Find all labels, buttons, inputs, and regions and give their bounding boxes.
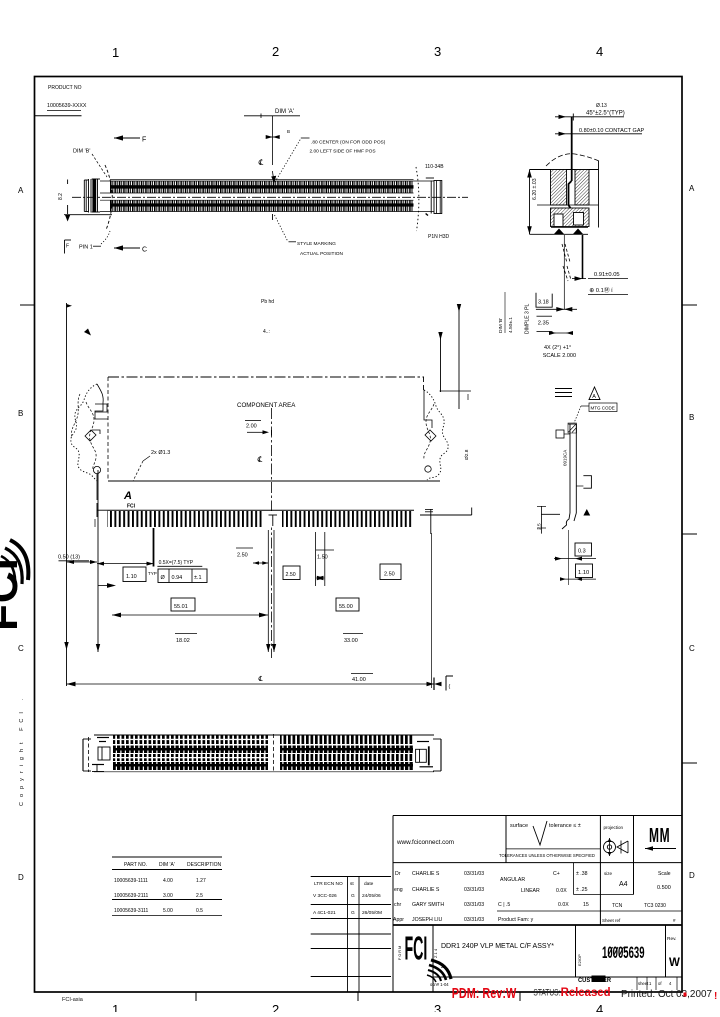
svg-text:A: A <box>123 490 132 502</box>
svg-text:55.00: 55.00 <box>339 604 353 610</box>
svg-text:ACTUAL POSITION: ACTUAL POSITION <box>300 251 344 257</box>
bottom view pin pattern left half <box>113 736 268 771</box>
svg-text:3: 3 <box>434 44 441 59</box>
zone letters left <box>18 186 24 882</box>
svg-text:GARY SMITH: GARY SMITH <box>412 902 444 908</box>
55.01 dim line <box>97 563 154 565</box>
svg-text:COMPONENT AREA: COMPONENT AREA <box>237 402 296 409</box>
section view texts <box>525 103 645 359</box>
svg-text:4..:: 4..: <box>263 329 270 335</box>
bottom view left bracket <box>82 739 84 771</box>
svg-text:surface: surface <box>510 823 528 829</box>
svg-text:tolerance ≤ ±: tolerance ≤ ± <box>549 823 581 829</box>
leader 2x dia 1.3 <box>143 456 150 461</box>
svg-text:Ø.13: Ø.13 <box>596 103 607 109</box>
zone numbers top <box>112 44 603 60</box>
far left small dimension <box>67 180 69 185</box>
2.35 overline and underline <box>537 315 553 317</box>
third angle projection symbol <box>604 838 629 856</box>
svg-text:STATUS:: STATUS: <box>533 988 560 998</box>
svg-text:P1N H3D: P1N H3D <box>428 234 450 240</box>
svg-text:0.5X=(7.5) TYP: 0.5X=(7.5) TYP <box>159 560 194 566</box>
svg-text:date: date <box>364 881 374 887</box>
left dim <box>540 506 542 534</box>
section contact bold line <box>571 117 573 181</box>
svg-text:1: 1 <box>112 45 119 60</box>
left latch outline <box>71 384 97 481</box>
svg-text:LINEAR: LINEAR <box>521 888 540 894</box>
svg-text:0.5: 0.5 <box>196 908 203 914</box>
component area dashed rect <box>108 376 424 378</box>
svg-text:projection: projection <box>604 825 624 830</box>
svg-text:eng: eng <box>394 887 403 893</box>
svg-text:24/05/06: 24/05/06 <box>362 893 381 899</box>
title block texts <box>393 823 676 923</box>
section hatched walls upper <box>551 170 567 206</box>
svg-text:0919CA: 0919CA <box>563 450 568 466</box>
right profile texts <box>537 394 615 576</box>
svg-text:V 3CC-026: V 3CC-026 <box>313 893 337 899</box>
section bottom line <box>551 227 588 229</box>
svg-text:0.94: 0.94 <box>172 575 183 581</box>
svg-text:A4: A4 <box>619 881 628 888</box>
title cell texts <box>398 936 680 987</box>
svg-text:± .38: ± .38 <box>576 871 588 877</box>
svg-text:CHARLIE S: CHARLIE S <box>412 887 440 893</box>
svg-text:FCI-asia: FCI-asia <box>62 997 84 1003</box>
svg-text:C | .5: C | .5 <box>498 902 510 908</box>
svg-text:LTR ECN NO: LTR ECN NO <box>314 881 343 887</box>
svg-text:D: D <box>689 871 695 880</box>
svg-text:size: size <box>604 871 612 876</box>
svg-text:03/31/03: 03/31/03 <box>464 902 484 908</box>
svg-text:.80 CENTER (ON FOR ODD POS): .80 CENTER (ON FOR ODD POS) <box>311 140 386 146</box>
svg-text:10005639-2111: 10005639-2111 <box>114 893 149 899</box>
svg-text:2x Ø1.3: 2x Ø1.3 <box>151 450 170 456</box>
top view detail circle (dashed arc) <box>105 165 112 230</box>
svg-text:℄: ℄ <box>258 675 263 683</box>
svg-text:2.5: 2.5 <box>537 523 543 530</box>
svg-text:4: 4 <box>596 1002 603 1012</box>
svg-text:2.35: 2.35 <box>538 321 549 327</box>
top view text labels <box>58 109 450 257</box>
svg-text:F O R M: F O R M <box>398 946 402 960</box>
svg-text:STYLE MARKING: STYLE MARKING <box>297 241 336 247</box>
svg-text:10005639-XXXX: 10005639-XXXX <box>47 103 87 109</box>
svg-text:6.20 ±.03: 6.20 ±.03 <box>532 178 538 200</box>
svg-text:C: C <box>689 644 695 653</box>
svg-text:4: 4 <box>596 44 603 59</box>
pin1 flag leader <box>93 245 101 247</box>
svg-text:15: 15 <box>583 902 589 908</box>
svg-text:A: A <box>18 186 24 195</box>
svg-text:B: B <box>18 409 23 418</box>
left overall dim line <box>66 303 68 686</box>
svg-text:W: W <box>669 957 680 969</box>
copyright vertical text <box>19 694 25 806</box>
svg-text:Sheet ref: Sheet ref <box>602 918 621 923</box>
right step bracket <box>583 476 591 489</box>
svg-text:Rev.: Rev. <box>667 936 677 942</box>
warning triangle A <box>589 387 600 400</box>
svg-text:Z 1 4: Z 1 4 <box>433 948 438 958</box>
bottom view pin pattern right half <box>280 736 413 771</box>
section arrow bottom <box>114 245 140 250</box>
svg-text:D: D <box>18 873 24 882</box>
svg-text:SCALE 2.000: SCALE 2.000 <box>543 353 576 359</box>
svg-text:DIM 'B': DIM 'B' <box>73 149 90 155</box>
profile body <box>569 424 571 513</box>
leader to center pin note <box>275 139 301 182</box>
svg-text:DESCRIPTION: DESCRIPTION <box>187 862 222 868</box>
svg-text:0.0X: 0.0X <box>556 888 567 894</box>
section dashed pin leads below <box>562 244 570 263</box>
svg-text:5.00: 5.00 <box>163 908 173 914</box>
svg-text:Product Fam: y: Product Fam: y <box>498 917 534 923</box>
svg-text:03/31/03: 03/31/03 <box>464 917 484 923</box>
right latch outline (mirrored) <box>424 390 448 480</box>
stack marks <box>555 388 572 390</box>
DIM A dimension line <box>244 115 300 117</box>
svg-text:2: 2 <box>441 964 444 970</box>
svg-text:1.27: 1.27 <box>196 878 206 884</box>
svg-text:03/31/03: 03/31/03 <box>464 887 484 893</box>
red PDM stamp <box>452 985 718 1002</box>
svg-text:Scale: Scale <box>658 871 671 877</box>
svg-text:DIM 'A': DIM 'A' <box>159 862 175 868</box>
svg-text:ocn# 1-04: ocn# 1-04 <box>430 982 449 987</box>
comb pin row <box>96 503 98 517</box>
svg-text:TOLERANCES UNLESS OTHERWISE SP: TOLERANCES UNLESS OTHERWISE SPECIFIED <box>499 853 595 858</box>
svg-text:DIMPLE 3 PL: DIMPLE 3 PL <box>525 303 531 334</box>
svg-text:C: C <box>142 247 147 254</box>
FCI watermark left edge <box>0 540 28 631</box>
svg-text:DIM 'A': DIM 'A' <box>275 109 294 115</box>
svg-text:chr: chr <box>394 902 401 908</box>
svg-text:8.2: 8.2 <box>58 193 64 200</box>
svg-text:Copyright FCI .: Copyright FCI . <box>19 694 25 806</box>
svg-text:1.50: 1.50 <box>317 555 328 561</box>
svg-text:0.91±0.05: 0.91±0.05 <box>594 272 620 278</box>
svg-text:℄: ℄ <box>258 158 264 167</box>
svg-text:DDR1 240P VLP METAL C/F ASSY*: DDR1 240P VLP METAL C/F ASSY* <box>441 943 554 950</box>
svg-text:± .25: ± .25 <box>576 887 588 893</box>
FCI logo <box>405 931 452 982</box>
top view right end cap <box>416 167 442 231</box>
svg-text:CHARLIE S: CHARLIE S <box>412 871 440 877</box>
svg-text:B: B <box>287 129 290 134</box>
svg-text:45°±2.5°(TYP): 45°±2.5°(TYP) <box>586 111 625 117</box>
second left dim line <box>97 470 99 652</box>
svg-text:2.00: 2.00 <box>246 424 257 430</box>
svg-text:3: 3 <box>434 1002 441 1012</box>
svg-text:0.80±0.10 CONTACT GAP: 0.80±0.10 CONTACT GAP <box>579 128 645 134</box>
svg-text:0.3: 0.3 <box>578 549 586 555</box>
svg-text:2.00 LEFT SIDE OF HMF POS: 2.00 LEFT SIDE OF HMF POS <box>310 149 376 155</box>
svg-text:0.0X: 0.0X <box>558 902 569 908</box>
svg-text:03/31/03: 03/31/03 <box>464 871 484 877</box>
svg-text:0.500: 0.500 <box>657 885 671 891</box>
svg-text:2.50: 2.50 <box>237 553 248 559</box>
2.00 dim to centerline <box>245 420 261 422</box>
svg-text:10005639-3111: 10005639-3111 <box>114 908 149 914</box>
dims below <box>575 543 592 556</box>
svg-text:MTG CODE: MTG CODE <box>591 406 615 411</box>
svg-text:G: G <box>351 893 355 899</box>
svg-text:sheet: sheet <box>638 981 649 986</box>
svg-text:55.01: 55.01 <box>174 604 188 610</box>
svg-text:2: 2 <box>272 44 279 59</box>
svg-text:4.50±.1: 4.50±.1 <box>508 317 514 333</box>
right vertical dim lines <box>440 332 442 392</box>
svg-text:www.fciconnect.com: www.fciconnect.com <box>396 839 454 846</box>
bottom view right end details <box>417 741 429 743</box>
zone letters right <box>689 184 695 880</box>
svg-text:3.00: 3.00 <box>163 893 173 899</box>
dim line at 309 <box>536 308 577 310</box>
svg-text:F: F <box>66 244 69 250</box>
svg-text:10005639: 10005639 <box>602 943 645 961</box>
svg-text:CUSTOMER: CUSTOMER <box>578 978 612 984</box>
svg-text:TC3 0230: TC3 0230 <box>644 903 666 909</box>
middle view texts <box>58 292 514 690</box>
svg-text:PDM: Rev:W: PDM: Rev:W <box>452 985 517 1002</box>
svg-text:(: ( <box>449 684 451 690</box>
bottom view right bracket <box>440 739 442 771</box>
top view vertical centerline at DIM A <box>272 116 274 165</box>
section solder feet <box>554 229 564 235</box>
svg-text:2.50: 2.50 <box>384 572 395 578</box>
product no box top-left <box>35 111 82 116</box>
svg-text:10005639-1111: 10005639-1111 <box>114 878 148 884</box>
svg-text:TCN: TCN <box>612 903 623 909</box>
leader to style marking note <box>275 215 289 242</box>
svg-text:℄: ℄ <box>257 455 263 464</box>
dims below comb <box>59 560 90 562</box>
svg-text:0.50 (13): 0.50 (13) <box>58 555 80 561</box>
svg-text:G: G <box>351 910 355 916</box>
svg-text:ANGULAR: ANGULAR <box>500 877 525 883</box>
0.91 underline <box>588 278 628 280</box>
section vertical dim line right of feet <box>582 235 584 279</box>
zone numbers bottom (cut off) <box>112 1002 603 1017</box>
svg-text:4.00: 4.00 <box>163 878 173 884</box>
svg-text:Released: Released <box>561 985 611 999</box>
svg-text:2: 2 <box>272 1002 279 1012</box>
bottom view center dashed line <box>273 734 275 772</box>
svg-text:PIN 1: PIN 1 <box>79 245 93 251</box>
top view pin band row 2 <box>100 200 434 211</box>
svg-text:4X (2°) +1°: 4X (2°) +1° <box>544 345 571 351</box>
3.18 box open top <box>536 293 552 307</box>
svg-text:1.10: 1.10 <box>126 574 137 580</box>
svg-text:JOSEPH LIU: JOSEPH LIU <box>412 917 443 923</box>
svg-text:TYP: TYP <box>148 571 157 576</box>
svg-text:C: C <box>18 644 24 653</box>
bottom view top outline <box>94 734 434 736</box>
svg-text:33.00: 33.00 <box>344 638 358 644</box>
svg-text:B: B <box>689 413 694 422</box>
bottom view left end details <box>97 737 109 739</box>
section dim callout lines <box>555 116 624 118</box>
dashed vertical centerline <box>271 408 273 658</box>
svg-text:PRODUCT NO: PRODUCT NO <box>48 85 82 91</box>
svg-text:18.02: 18.02 <box>176 638 190 644</box>
left dim arrows on body <box>527 170 532 235</box>
svg-text:2.50: 2.50 <box>286 572 296 578</box>
top view horizontal centerline <box>72 196 468 198</box>
svg-text:PART NO.: PART NO. <box>124 862 147 868</box>
svg-text:C+: C+ <box>553 871 560 877</box>
long 41.00 dim line <box>67 683 435 685</box>
top view pin band row 1 <box>100 179 434 193</box>
svg-text:A 4C1-021: A 4C1-021 <box>313 910 336 916</box>
extension line from left foot <box>563 235 565 309</box>
svg-text:2.5: 2.5 <box>196 893 203 899</box>
MM cell <box>645 825 676 851</box>
svg-text:Appr: Appr <box>393 917 404 923</box>
DIM B dashed leader <box>92 154 107 177</box>
top view left end cap <box>84 179 100 213</box>
section hatched lower <box>551 208 590 227</box>
svg-text:1.10: 1.10 <box>578 570 589 576</box>
svg-text:1: 1 <box>112 1002 119 1012</box>
section mid line <box>537 204 599 206</box>
svg-text:3.18: 3.18 <box>538 300 549 306</box>
section break line top (phantom) <box>546 154 599 166</box>
svg-text:±.1: ±.1 <box>194 575 202 581</box>
svg-text:41.00: 41.00 <box>352 677 366 683</box>
svg-text:Pb hd: Pb hd <box>261 299 274 305</box>
component area bottom solid line <box>108 480 440 482</box>
svg-text:A: A <box>592 394 596 400</box>
svg-text:FCI: FCI <box>127 504 136 510</box>
svg-text:Ø2.8: Ø2.8 <box>464 449 470 460</box>
svg-text:110-34B: 110-34B <box>425 164 444 170</box>
surface finish symbol <box>533 821 547 845</box>
svg-text:MM: MM <box>649 825 670 847</box>
svg-text:F: F <box>142 137 146 144</box>
svg-text:A: A <box>689 184 695 193</box>
svg-text:!: ! <box>714 991 717 1002</box>
svg-text:26/05/0M: 26/05/0M <box>362 910 382 916</box>
svg-text:⊕ 0.1Ⓜ ί: ⊕ 0.1Ⓜ ί <box>589 286 613 294</box>
svg-text:Dr: Dr <box>395 871 401 877</box>
svg-text:E2/OP: E2/OP <box>577 954 582 966</box>
section arrow top <box>114 135 140 140</box>
section body outline <box>530 169 599 171</box>
filled triangle marker <box>583 509 590 516</box>
svg-text:Printed: Oct 03,2007: Printed: Oct 03,2007 <box>621 989 712 1000</box>
left small box <box>556 430 564 438</box>
svg-text:FCI: FCI <box>405 931 428 967</box>
svg-text:Ø: Ø <box>161 575 166 581</box>
zone ticks <box>20 305 697 1001</box>
svg-text:DIM 'B': DIM 'B' <box>498 318 504 333</box>
small arrows pair <box>549 331 573 335</box>
